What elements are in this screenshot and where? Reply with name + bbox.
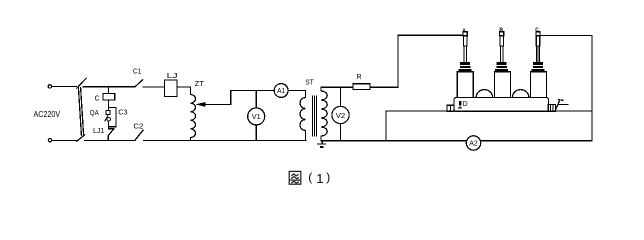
wire LJ to variac ZT	[177, 87, 191, 95]
svg-text:LJ1: LJ1	[93, 128, 105, 135]
svg-text:ST: ST	[305, 80, 314, 87]
relay coil LJ (box)	[165, 80, 178, 97]
svg-text:C2: C2	[133, 124, 143, 131]
bushing B	[494, 32, 510, 98]
transformer ST core	[313, 96, 317, 136]
pushbutton QA	[105, 107, 110, 126]
bushing C	[531, 32, 547, 98]
svg-text:AC220V: AC220V	[34, 109, 61, 119]
svg-text:LJ: LJ	[167, 73, 178, 80]
tank right foot	[548, 105, 555, 112]
voltmeter V2 stub top	[340, 87, 342, 106]
caption 图 glyph	[289, 171, 301, 184]
transformer ST secondary winding	[321, 91, 327, 136]
wire ZT bottom to rail	[190, 138, 192, 141]
wire secondary bottom to ground node	[320, 136, 322, 141]
wire right edge down	[591, 36, 593, 141]
svg-text:C: C	[535, 28, 539, 34]
wire R to riser	[370, 86, 398, 88]
svg-text:C1: C1	[133, 69, 142, 76]
tank left foot	[447, 105, 454, 111]
voltmeter V2 stub bottom	[340, 124, 342, 141]
variac wiper arrow	[195, 102, 230, 107]
svg-text:A: A	[462, 28, 466, 34]
wire A1 to transformer primary	[288, 90, 306, 97]
svg-text:A2: A2	[469, 141, 478, 148]
svg-text:B: B	[499, 28, 503, 34]
svg-text:V2: V2	[336, 111, 346, 120]
bushing A	[457, 32, 473, 98]
resistor R	[353, 84, 370, 90]
svg-text:): )	[326, 170, 330, 184]
svg-text:C: C	[95, 95, 100, 102]
platform earth line under tank	[386, 110, 592, 112]
contactor coil C (box)	[103, 87, 115, 108]
voltmeter V2	[332, 106, 349, 123]
wire bushing C to right edge	[540, 35, 592, 37]
wire X1 to switch top pole	[52, 86, 77, 88]
wire wiper riser to A1 rail	[231, 90, 275, 104]
wire secondary top to resistor R	[321, 87, 353, 91]
ammeter A2	[466, 136, 480, 150]
tank terminal mark (!)	[459, 101, 462, 108]
contact C1	[135, 80, 165, 87]
svg-text:D: D	[463, 101, 468, 108]
voltmeter V1	[248, 108, 265, 125]
contact C3 (self holding branch)	[109, 107, 116, 126]
voltmeter V1 stub top	[255, 90, 257, 108]
wire bottom rail C2 to transformer primary	[191, 140, 307, 142]
terminal X1 (AC220V top)	[48, 85, 51, 88]
wire riser up to bushing A	[398, 35, 463, 87]
wire bottom rail: switch to contact C2	[85, 140, 135, 142]
node control branch split	[109, 106, 116, 108]
platform riser from bottom rail	[385, 111, 387, 141]
svg-text:1: 1	[316, 171, 323, 186]
svg-text:QA: QA	[90, 110, 99, 117]
svg-text:V1: V1	[252, 112, 261, 121]
ground at transformer secondary	[318, 141, 326, 148]
contact C2	[135, 130, 191, 140]
svg-text:C3: C3	[118, 110, 127, 117]
test object tank	[454, 97, 549, 111]
terminal X2 (AC220V bottom)	[48, 139, 51, 142]
svg-text:ZT: ZT	[195, 81, 205, 88]
transformer ST primary winding	[300, 98, 306, 141]
ammeter A1	[274, 84, 288, 98]
wire X2 to switch bottom pole	[52, 140, 77, 142]
voltmeter V1 stub bottom	[255, 125, 257, 141]
tank hump right	[512, 90, 528, 98]
variac ZT winding	[191, 95, 196, 138]
svg-text:A1: A1	[277, 88, 285, 95]
wire secondary bottom rail to A2	[321, 140, 466, 142]
svg-text:R: R	[357, 74, 362, 81]
wire top rail: switch to contact C1	[83, 86, 135, 88]
tank hump left	[476, 90, 492, 98]
svg-text:(: (	[308, 170, 312, 184]
contact LJ1	[108, 127, 114, 141]
wire A2 to right edge	[481, 140, 592, 142]
switch DK double-pole knife switch	[77, 78, 86, 141]
caption (1)	[308, 170, 330, 186]
terminal mark x near right foot	[555, 100, 568, 112]
